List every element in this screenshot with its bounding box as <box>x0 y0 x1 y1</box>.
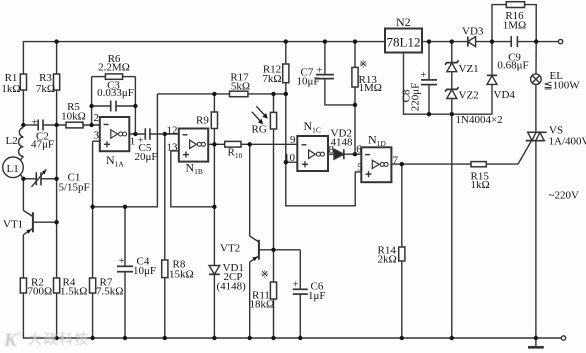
resistor R2 <box>20 278 26 293</box>
node rail VZ <box>450 336 454 340</box>
wire N2 ground pin <box>404 53 493 115</box>
svg-text:6: 6 <box>356 144 362 156</box>
diode VD4 <box>491 42 493 76</box>
svg-text:~220V: ~220V <box>549 190 579 202</box>
svg-text:13: 13 <box>167 141 179 153</box>
svg-text:7kΩ: 7kΩ <box>36 83 55 95</box>
svg-text:※: ※ <box>359 60 367 71</box>
capacitor C7 <box>324 42 326 75</box>
inductor L2 <box>19 128 24 157</box>
svg-text:4148: 4148 <box>331 136 354 148</box>
svg-text:+: + <box>293 280 299 291</box>
diode VD1 <box>209 266 220 275</box>
capacitor C8 <box>428 42 430 80</box>
node rail R11 <box>271 336 275 340</box>
capacitor C9 <box>492 41 511 43</box>
node feedback/C3 <box>89 104 93 108</box>
wire VZ column to bottom rail <box>451 114 453 338</box>
wire VD1 column <box>213 144 215 265</box>
svg-text:1: 1 <box>130 135 136 147</box>
svg-text:700Ω: 700Ω <box>28 286 53 298</box>
svg-text:1N4004×2: 1N4004×2 <box>456 114 503 126</box>
svg-text:5kΩ: 5kΩ <box>231 81 250 93</box>
svg-text:VT2: VT2 <box>220 243 240 255</box>
wire node pin3/C4/R17 <box>93 94 158 207</box>
node rail R3 <box>54 39 58 43</box>
node rail R4 <box>54 336 58 340</box>
svg-text:10: 10 <box>284 152 296 164</box>
node VD3/VD4/R16 <box>490 39 494 43</box>
svg-text:VT1: VT1 <box>3 219 23 231</box>
node rail R7 <box>90 336 94 340</box>
wire <box>22 235 24 278</box>
node VT1 base <box>54 220 58 224</box>
wire <box>248 93 286 95</box>
resistor R4 <box>54 278 60 293</box>
svg-text:+: + <box>317 66 323 77</box>
svg-text:1MΩ: 1MΩ <box>359 82 382 94</box>
node rail VZ1 <box>450 39 454 43</box>
wire bottom rail <box>23 293 561 338</box>
svg-text:1.5kΩ: 1.5kΩ <box>60 286 87 298</box>
wire output pin1 <box>129 133 145 135</box>
svg-text:0.68μF: 0.68μF <box>497 60 528 72</box>
resistor R12 <box>285 42 287 64</box>
zener VZ2 <box>445 87 459 91</box>
svg-text:大政科技: 大政科技 <box>28 332 90 348</box>
node rail R13 <box>353 39 357 43</box>
svg-text:VD3: VD3 <box>462 26 484 38</box>
wire pin13 feedback <box>171 151 215 207</box>
wire <box>83 124 100 126</box>
svg-text:VZ1: VZ1 <box>459 63 479 75</box>
resistor R8 <box>164 134 166 260</box>
svg-text:7kΩ: 7kΩ <box>262 73 281 85</box>
node C3/output <box>133 104 137 108</box>
node pin2 <box>89 123 93 127</box>
node rail VS/ground <box>534 336 538 340</box>
svg-text:220μF: 220μF <box>410 83 422 112</box>
svg-text:K: K <box>3 330 18 351</box>
svg-text:10μF: 10μF <box>297 76 320 88</box>
node rail C6 <box>298 336 302 340</box>
wire N2 output <box>422 41 468 43</box>
svg-text:≦100W: ≦100W <box>544 80 581 92</box>
resistor R17 <box>230 91 248 97</box>
op-amp N1C <box>297 136 328 171</box>
resistor R9 <box>213 94 215 112</box>
node C1/L1 <box>21 177 25 181</box>
regulator U N2 78L12 <box>385 29 422 53</box>
node ground wire C8 <box>427 112 431 116</box>
node pin10 <box>284 160 288 164</box>
node pin1 <box>133 132 137 136</box>
svg-text:9: 9 <box>290 134 296 146</box>
wire <box>56 293 58 338</box>
svg-text:R9: R9 <box>196 115 209 127</box>
wire pin3 <box>93 140 100 142</box>
wire R6/C3 feedback left <box>91 77 93 125</box>
svg-text:15kΩ: 15kΩ <box>169 269 194 281</box>
node ground wire VZ2 <box>450 112 454 116</box>
svg-text:+: + <box>119 256 125 267</box>
resistor R6 <box>92 76 106 78</box>
node R7/wire <box>90 205 94 209</box>
resistor R3 <box>56 42 58 74</box>
node C2/R3 <box>54 123 58 127</box>
svg-text:N2: N2 <box>396 15 411 29</box>
svg-text:o: o <box>17 328 22 338</box>
node pin7/R14 <box>400 162 404 166</box>
resistor R13 <box>354 42 356 68</box>
resistor R7 / wire from pin3 <box>92 141 94 278</box>
svg-text:5: 5 <box>357 162 363 174</box>
svg-text:47μF: 47μF <box>31 139 54 151</box>
triac VS <box>527 131 547 133</box>
node VD2 / R13 / pin6 <box>353 152 357 156</box>
diode VD2 <box>334 149 344 159</box>
svg-text:+: + <box>421 70 427 81</box>
capacitor C2 <box>23 124 38 126</box>
wire <box>22 90 24 125</box>
node C4/wire <box>123 205 127 209</box>
svg-text:1MΩ: 1MΩ <box>503 20 526 32</box>
svg-text:12: 12 <box>167 124 178 136</box>
LEFTCOL <box>157 42 518 338</box>
svg-text:5/15pF: 5/15pF <box>59 182 90 194</box>
svg-text:3: 3 <box>94 130 100 142</box>
resistor R14 <box>401 164 403 247</box>
wire N1B output <box>208 143 225 145</box>
node rail R14 <box>400 336 404 340</box>
node R12 bottom <box>284 92 288 96</box>
watermark <box>3 328 90 351</box>
svg-text:+: + <box>32 117 38 129</box>
terminal top right <box>558 39 562 43</box>
capacitor C6 <box>299 250 301 289</box>
node rail R8 <box>163 336 167 340</box>
wire pin10 <box>286 161 298 163</box>
transistor VT1 <box>32 212 34 232</box>
node C1/R3 <box>54 177 58 181</box>
transistor VT2 <box>249 144 251 236</box>
node rail R12 <box>284 39 288 43</box>
resistor R11 <box>273 250 275 282</box>
svg-text:VZ2: VZ2 <box>459 90 479 102</box>
wire R12 to pin10 and pin5 loop <box>286 94 362 206</box>
svg-text:L1: L1 <box>7 163 19 175</box>
svg-text:10μF: 10μF <box>133 265 156 277</box>
svg-text:VD4: VD4 <box>494 89 516 101</box>
svg-text:2.2MΩ: 2.2MΩ <box>98 62 130 74</box>
svg-text:2: 2 <box>94 112 100 124</box>
node rail C4 <box>123 336 127 340</box>
op-amp N1A <box>100 117 130 151</box>
svg-text:2kΩ: 2kΩ <box>378 254 397 266</box>
node pin12/R8 <box>163 132 167 136</box>
node R16/C9/EL <box>534 39 538 43</box>
node rail C8 <box>427 39 431 43</box>
svg-text:L2: L2 <box>6 135 18 147</box>
wire triac gate <box>518 142 531 165</box>
node C2/L2 <box>21 123 25 127</box>
MIDSECTION <box>385 2 566 348</box>
inductor L1 <box>3 157 24 178</box>
diode VD3 <box>467 37 469 47</box>
svg-text:(4148): (4148) <box>217 281 247 293</box>
wire to pin9 <box>241 143 297 145</box>
wire N1D output pin7 <box>391 163 518 165</box>
capacitor C3 <box>92 105 111 107</box>
svg-text:RG: RG <box>252 124 267 136</box>
svg-text:20μF: 20μF <box>135 151 158 163</box>
wire feedback right <box>134 77 136 134</box>
resistor R5 <box>66 122 83 128</box>
node rail VT2 <box>248 336 252 340</box>
resistor R1 <box>20 74 26 90</box>
svg-text:7: 7 <box>393 154 399 166</box>
node VT2 base / RG / R11 <box>271 248 275 252</box>
capacitor C4 <box>124 207 126 266</box>
wire R17 row <box>157 93 229 95</box>
node rail VD1 <box>212 336 216 340</box>
op-amp N1D <box>361 147 391 182</box>
node C7/R13 <box>353 103 357 107</box>
svg-text:78L12: 78L12 <box>387 35 421 50</box>
wire <box>22 179 24 211</box>
svg-text:1kΩ: 1kΩ <box>471 179 490 191</box>
svg-text:18kΩ: 18kΩ <box>250 299 275 311</box>
node RG top <box>271 92 275 96</box>
wire <box>56 90 58 278</box>
resistor R16 loop <box>492 5 506 42</box>
wire N1C output pin8 <box>328 153 334 155</box>
node pin13 feedback <box>212 205 216 209</box>
zener VZ1 <box>451 42 453 63</box>
node VT2 collector <box>248 142 252 146</box>
lamp EL <box>535 42 537 74</box>
svg-text:1A/400V: 1A/400V <box>549 136 586 148</box>
wire top rail <box>23 42 385 74</box>
capacitor C5 <box>144 128 146 140</box>
photoresistor RG <box>273 94 275 113</box>
svg-text:1μF: 1μF <box>308 290 326 302</box>
terminal bottom right <box>561 336 565 340</box>
svg-text:7.5kΩ: 7.5kΩ <box>96 286 123 298</box>
op-amp N1B <box>179 129 208 162</box>
node R9 top <box>212 92 216 96</box>
node rail C7 <box>323 39 327 43</box>
svg-text:※: ※ <box>261 270 269 281</box>
resistor R10 <box>225 141 241 147</box>
svg-text:10kΩ: 10kΩ <box>61 111 86 123</box>
svg-text:1kΩ: 1kΩ <box>1 83 20 95</box>
resistor R15 <box>471 162 486 167</box>
svg-text:0.033μF: 0.033μF <box>97 87 134 99</box>
ground <box>535 338 537 346</box>
capacitor C1 variable <box>23 178 36 180</box>
node R9/output <box>212 142 216 146</box>
